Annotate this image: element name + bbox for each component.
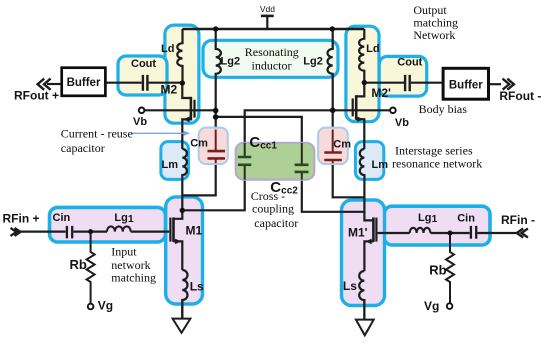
- svg-text:M1: M1: [186, 224, 203, 238]
- svg-text:Vg: Vg: [98, 299, 113, 313]
- svg-text:Lg1: Lg1: [418, 212, 437, 225]
- svg-text:Vb: Vb: [395, 117, 409, 129]
- svg-text:Resonating: Resonating: [245, 45, 299, 59]
- svg-text:Cin: Cin: [53, 212, 71, 224]
- svg-text:Lg2: Lg2: [303, 56, 323, 68]
- svg-text:Buffer: Buffer: [67, 77, 101, 89]
- svg-text:Buffer: Buffer: [449, 79, 483, 91]
- svg-text:Input: Input: [111, 245, 137, 259]
- svg-text:capacitor: capacitor: [61, 141, 105, 155]
- svg-text:Interstage series: Interstage series: [395, 144, 473, 158]
- svg-text:Vb: Vb: [133, 116, 147, 128]
- svg-text:Ccc1: Ccc1: [249, 134, 277, 152]
- svg-text:RFout -: RFout -: [499, 89, 541, 103]
- svg-text:Ld: Ld: [161, 43, 174, 55]
- svg-text:network: network: [111, 258, 150, 272]
- svg-text:capacitor: capacitor: [254, 216, 298, 230]
- svg-text:Vdd: Vdd: [260, 4, 275, 14]
- svg-text:Ls: Ls: [190, 280, 204, 294]
- svg-text:coupling: coupling: [252, 202, 294, 216]
- svg-text:Current - reuse: Current - reuse: [61, 127, 133, 141]
- svg-text:Cout: Cout: [131, 58, 156, 70]
- svg-text:Cm: Cm: [190, 137, 208, 149]
- svg-text:Rb: Rb: [70, 257, 87, 272]
- svg-text:RFin +: RFin +: [3, 211, 40, 225]
- svg-text:Ls: Ls: [343, 279, 357, 293]
- svg-text:M1': M1': [348, 226, 368, 240]
- svg-text:Cm: Cm: [333, 139, 351, 151]
- svg-text:RFin -: RFin -: [501, 213, 535, 227]
- svg-text:Lm: Lm: [162, 159, 179, 171]
- svg-text:Cin: Cin: [457, 213, 475, 225]
- svg-text:matching: matching: [111, 271, 156, 285]
- svg-text:inductor: inductor: [252, 58, 292, 72]
- svg-text:resonance network: resonance network: [392, 157, 482, 171]
- svg-text:Ld: Ld: [366, 43, 379, 55]
- svg-text:RFout +: RFout +: [14, 88, 59, 102]
- svg-text:Vg: Vg: [424, 299, 439, 313]
- svg-text:M2': M2': [371, 86, 391, 100]
- svg-text:Network: Network: [413, 28, 455, 42]
- svg-text:Body bias: Body bias: [419, 102, 468, 116]
- svg-text:M2: M2: [161, 83, 178, 97]
- svg-text:Rb: Rb: [429, 263, 446, 278]
- svg-text:Lm: Lm: [372, 159, 389, 171]
- svg-text:Lg2: Lg2: [221, 56, 241, 68]
- svg-text:Cout: Cout: [397, 56, 422, 68]
- svg-text:Lg1: Lg1: [114, 212, 133, 225]
